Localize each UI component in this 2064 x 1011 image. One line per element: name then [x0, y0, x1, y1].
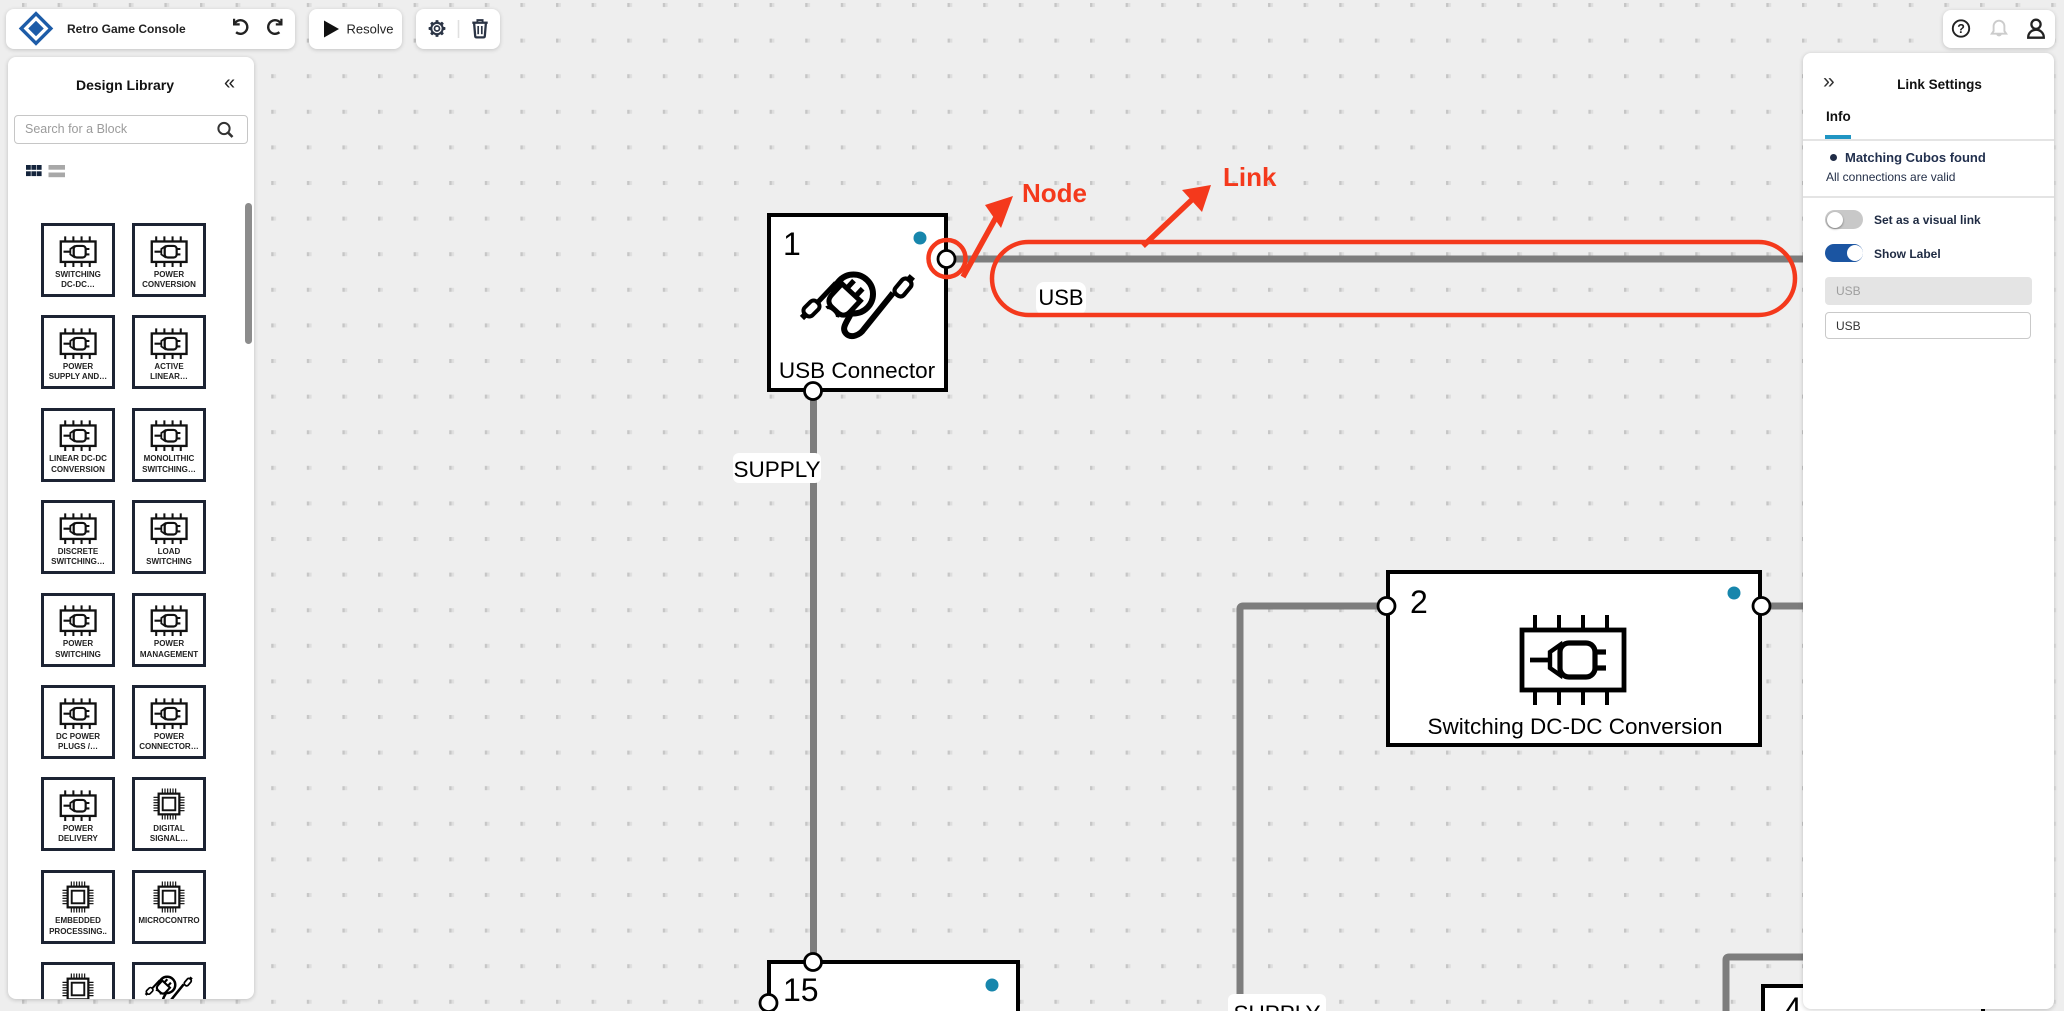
label SUPPLY (upper) — [733, 453, 821, 483]
svg-text:15: 15 — [783, 972, 819, 1008]
undo icon — [234, 19, 247, 34]
wire SUPPLY (block 1 bottom to block 15 top) — [810, 392, 817, 962]
block 4 (bottom right, clipped) — [1763, 986, 1983, 1011]
svg-text:SUPPLY: SUPPLY — [1233, 1001, 1320, 1011]
account icon — [2028, 20, 2044, 38]
disabled input — [1825, 277, 2032, 305]
toolbar card: settings / delete — [416, 9, 500, 49]
block 15 (bottom, clipped) — [769, 962, 1018, 1011]
annotation text Node — [1022, 178, 1087, 208]
svg-text:Node: Node — [1022, 178, 1087, 208]
node block1 bottom — [805, 383, 822, 400]
annotation red circle around node — [929, 240, 966, 277]
wire to block 4 (corner at 1726,957) — [1726, 957, 1810, 1011]
toolbar card: project title — [6, 9, 295, 49]
svg-text:SUPPLY: SUPPLY — [733, 457, 820, 482]
wire USB (link from block 1 right node) — [947, 256, 1812, 263]
block 1 USB Connector — [769, 215, 946, 390]
svg-text:Retro Game Console: Retro Game Console — [67, 22, 186, 36]
svg-text:Switching DC-DC Conversion: Switching DC-DC Conversion — [1427, 714, 1722, 739]
node block2 left — [1378, 598, 1395, 615]
node block15 top — [805, 954, 822, 971]
svg-text:4: 4 — [1784, 991, 1802, 1011]
toggle: show label (on) — [1825, 244, 1863, 263]
bell icon (disabled) — [1992, 21, 2006, 36]
search box — [14, 115, 248, 145]
label SUPPLY (lower, clipped at bottom) — [1228, 994, 1326, 1011]
svg-text:?: ? — [1957, 22, 1965, 36]
annotation text Link — [1223, 162, 1277, 192]
svg-text:USB Connector: USB Connector — [779, 358, 936, 383]
toolbar card: Resolve button — [309, 9, 402, 49]
annotation red capsule around link — [992, 242, 1795, 315]
wire block2 right stub — [1762, 603, 1812, 610]
view toggle icons — [26, 165, 86, 181]
block 2 Switching DC-DC Conversion — [1388, 572, 1760, 745]
toggle: set as a visual link (off) — [1825, 210, 1863, 229]
label USB (link label) — [1036, 282, 1086, 315]
annotation arrow Node — [963, 196, 1013, 277]
annotation arrow Link — [1143, 185, 1211, 246]
node block2 right — [1753, 598, 1770, 615]
text input — [1825, 312, 2031, 340]
redo icon — [268, 19, 281, 34]
svg-text:2: 2 — [1410, 584, 1428, 620]
help icon — [1953, 20, 1969, 36]
svg-text:USB: USB — [1038, 285, 1083, 310]
gear icon — [425, 17, 449, 41]
logo diamond — [21, 14, 51, 44]
trash icon — [472, 20, 487, 37]
node block1 right — [938, 251, 955, 268]
LEFTPANEL — [8, 57, 254, 999]
library tiles — [41, 223, 115, 297]
Info tab — [1826, 109, 1851, 124]
status — [1830, 154, 1837, 161]
RIGHTPANEL — [1803, 53, 2054, 1009]
scrollbar thumb — [245, 203, 252, 344]
node block15 left — [760, 995, 777, 1011]
svg-text:Resolve: Resolve — [347, 22, 394, 37]
svg-text:Link: Link — [1223, 162, 1277, 192]
toolbar card: help/notifications/account — [1943, 10, 2055, 48]
svg-text:1: 1 — [783, 226, 801, 262]
wire block2 left (corner at 1240,606 down to bottom SUPPLY) — [1240, 606, 1386, 1003]
